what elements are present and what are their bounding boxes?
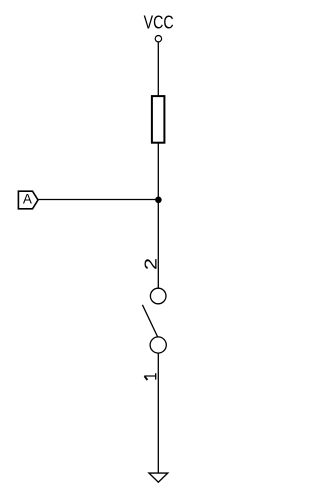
wire [157,143,159,289]
global label A [18,191,38,209]
svg-text:2: 2 [141,258,161,270]
ground [149,473,168,482]
junction node A [155,197,162,204]
svg-text:VCC: VCC [144,12,174,32]
power symbol VCC [144,12,174,42]
switch SW1 [141,258,166,380]
wire [157,42,159,95]
svg-text:A: A [23,192,32,207]
switch contact 2 [150,288,166,304]
switch arm [142,305,157,337]
resistor [152,96,165,143]
switch contact 1 [150,337,166,353]
pin 1 number [144,373,156,380]
wire [38,199,158,201]
wire [157,353,159,473]
